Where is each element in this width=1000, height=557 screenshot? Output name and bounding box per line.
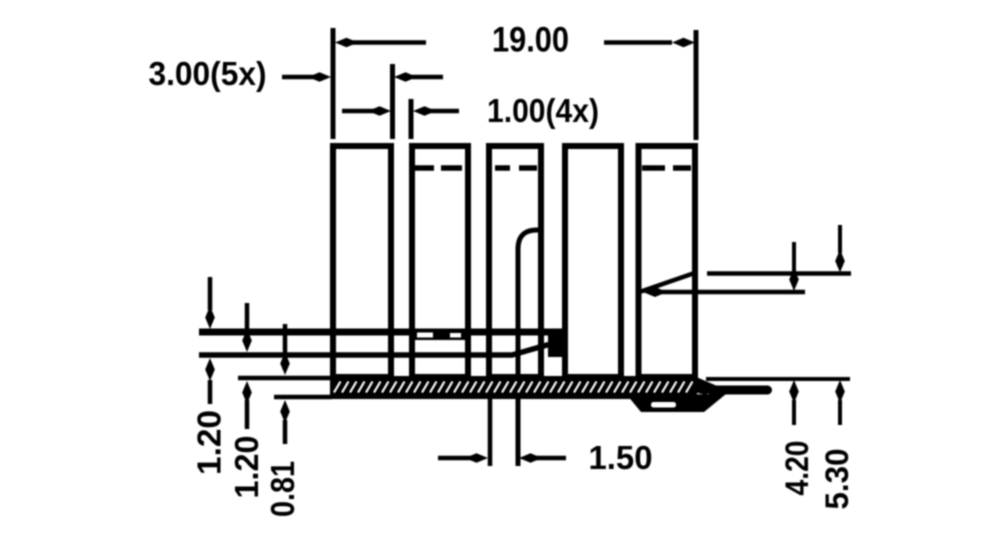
svg-text:4.20: 4.20 [779,441,815,496]
svg-text:5.30: 5.30 [819,449,855,510]
svg-text:3.00(5x): 3.00(5x) [149,55,267,92]
svg-text:19.00: 19.00 [492,20,569,59]
svg-text:0.81: 0.81 [264,461,301,517]
svg-text:1.20: 1.20 [228,436,265,499]
svg-text:1.20: 1.20 [191,410,228,475]
svg-text:1.00(4x): 1.00(4x) [487,92,599,129]
svg-text:1.50: 1.50 [589,439,653,476]
